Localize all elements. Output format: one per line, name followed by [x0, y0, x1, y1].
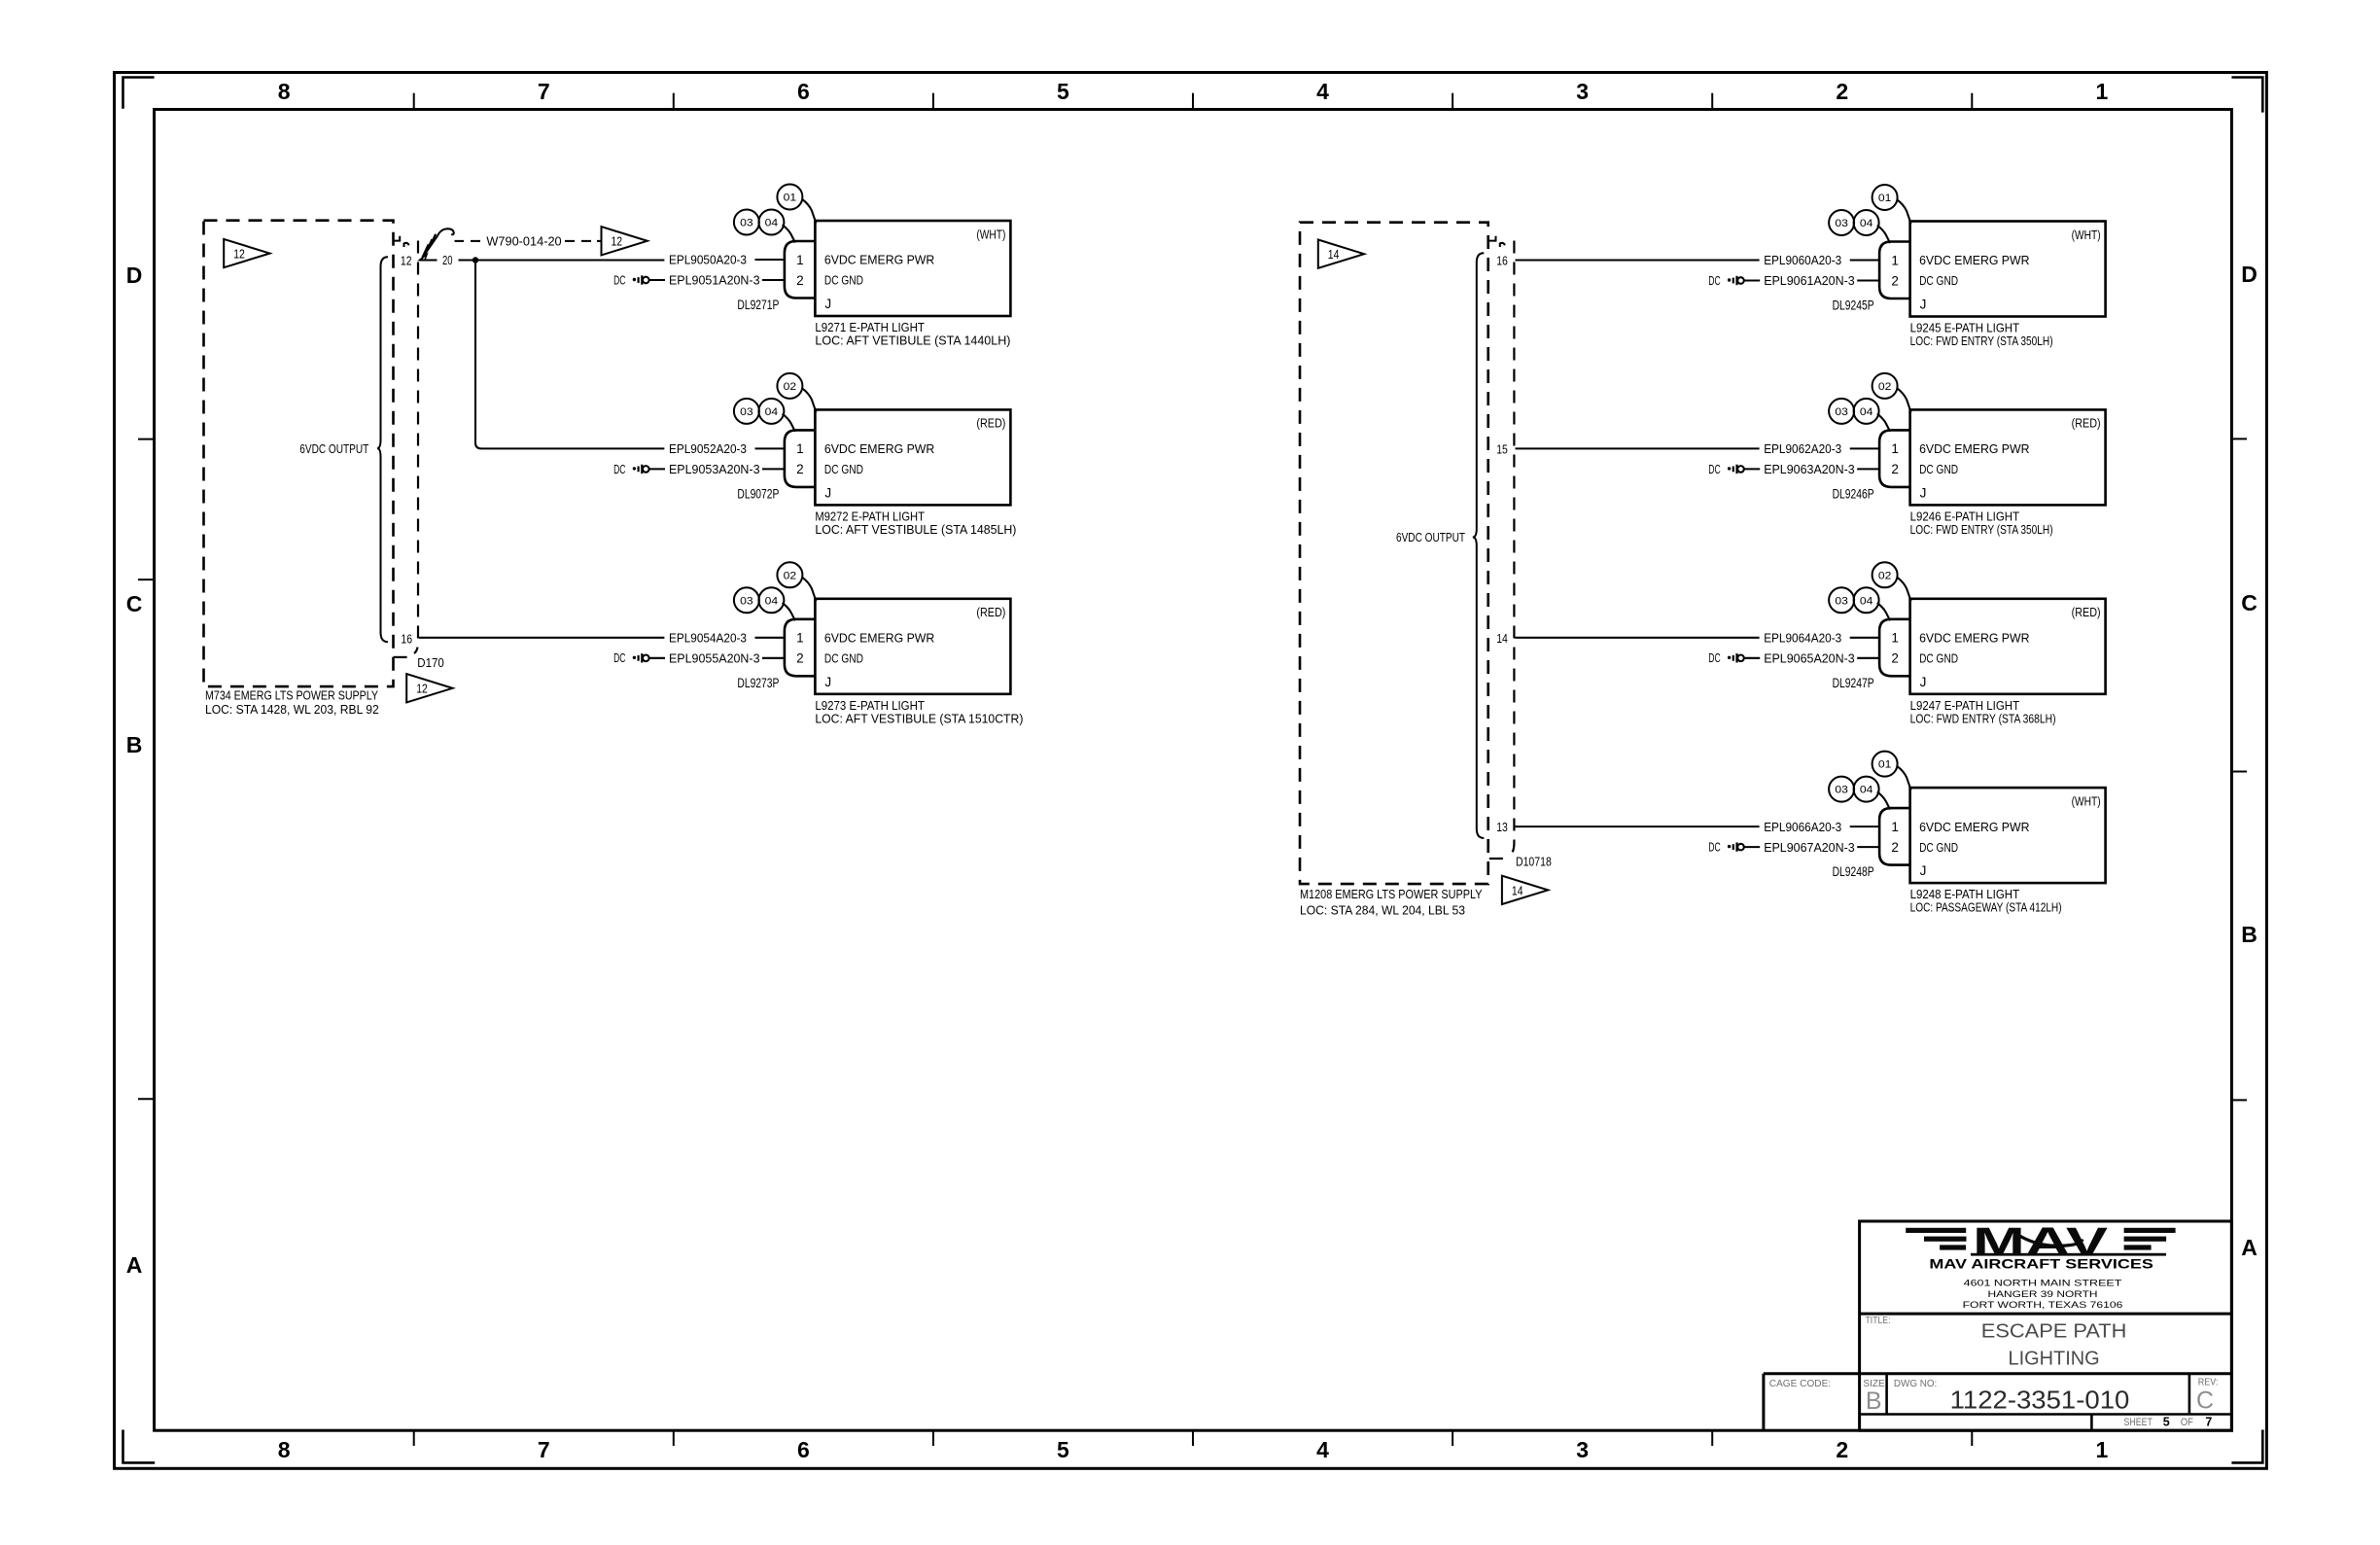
wire EPL9061A20N-3	[1764, 273, 1879, 288]
svg-text:LIGHTING: LIGHTING	[2009, 1348, 2100, 1370]
shield pigtail (W790)	[420, 228, 454, 260]
label L9245 E-PATH LIGHT	[1910, 321, 2053, 349]
svg-text:12: 12	[233, 247, 245, 262]
svg-text:HANGER 39 NORTH: HANGER 39 NORTH	[1988, 1289, 2098, 1300]
circle callout 03 (L9247)	[1829, 587, 1854, 613]
label L9273 E-PATH LIGHT	[815, 698, 1023, 726]
connector DL9072P	[785, 430, 816, 487]
svg-text:J: J	[824, 297, 831, 311]
svg-text:DC GND: DC GND	[824, 651, 863, 666]
svg-text:4: 4	[1316, 79, 1329, 104]
ground DC (EPL9067A20N-3)	[1708, 841, 1760, 855]
svg-text:2: 2	[796, 651, 804, 666]
svg-text:C: C	[126, 591, 143, 616]
svg-text:(RED): (RED)	[976, 605, 1005, 619]
svg-text:(WHT): (WHT)	[2072, 793, 2101, 808]
zone ticks top	[414, 93, 1973, 110]
connector DL9247P	[1879, 619, 1910, 677]
svg-text:12: 12	[612, 234, 623, 249]
connector D10718 (dashed interface line)	[1510, 241, 1514, 856]
svg-text:DC GND: DC GND	[1919, 651, 1958, 666]
wire EPL9052A20-3	[669, 441, 785, 456]
wire EPL9054A20-3	[669, 631, 785, 646]
svg-text:DL9072P: DL9072P	[737, 486, 779, 501]
svg-text:B: B	[126, 732, 143, 757]
circle callout 04 (L9271)	[758, 210, 795, 243]
circle callout 04 (L9246)	[1854, 399, 1891, 432]
wire EPL9055A20N-3	[669, 651, 785, 666]
REV cell	[2196, 1377, 2219, 1415]
svg-text:2: 2	[1891, 651, 1899, 666]
sheet flag 12 (M734)	[224, 239, 269, 267]
SHEET 5 OF 7	[2124, 1415, 2213, 1428]
junction dot (EPL9050 branch)	[472, 257, 478, 263]
connector D170 (dashed interface line)	[414, 241, 418, 654]
svg-text:TITLE:: TITLE:	[1866, 1315, 1891, 1326]
svg-text:LOC: FWD ENTRY (STA 350LH): LOC: FWD ENTRY (STA 350LH)	[1910, 334, 2053, 348]
svg-text:02: 02	[1878, 381, 1892, 393]
svg-text:EPL9055A20N-3: EPL9055A20N-3	[669, 651, 760, 666]
svg-text:5: 5	[1057, 1437, 1069, 1462]
svg-text:DL9271P: DL9271P	[737, 298, 779, 312]
svg-text:EPL9061A20N-3: EPL9061A20N-3	[1764, 273, 1855, 288]
svg-text:DL9248P: DL9248P	[1833, 864, 1874, 879]
label L9246 E-PATH LIGHT	[1910, 509, 2053, 537]
svg-text:14: 14	[1496, 631, 1508, 646]
svg-text:A: A	[126, 1252, 143, 1278]
zone ticks left	[138, 439, 155, 1100]
svg-text:(RED): (RED)	[2072, 416, 2101, 431]
connector DL9273P	[785, 619, 816, 677]
svg-text:6VDC OUTPUT: 6VDC OUTPUT	[1396, 530, 1465, 544]
logo address lines	[1963, 1279, 2123, 1312]
svg-text:02: 02	[784, 381, 797, 393]
circle callout 02 (M9272)	[777, 373, 816, 412]
svg-text:J: J	[824, 485, 831, 500]
wire EPL9053A20N-3	[669, 462, 785, 476]
svg-text:D: D	[126, 263, 143, 288]
label L9271 E-PATH LIGHT	[815, 320, 1010, 348]
svg-text:DL9246P: DL9246P	[1833, 486, 1874, 501]
sheet flag 14 (M1208)	[1318, 240, 1364, 268]
corner bracket bottom-right	[2231, 1430, 2262, 1463]
svg-text:01: 01	[1878, 759, 1892, 771]
wire EPL9050A20-3	[669, 253, 785, 267]
svg-text:6: 6	[797, 79, 810, 104]
DWG NO cell	[1894, 1378, 2129, 1415]
svg-text:01: 01	[1878, 193, 1892, 204]
svg-text:EPL9065A20N-3: EPL9065A20N-3	[1764, 651, 1855, 666]
svg-text:DC: DC	[613, 463, 625, 476]
svg-text:DWG NO:: DWG NO:	[1894, 1378, 1937, 1389]
shield termination mark (D170 bottom)	[394, 656, 407, 658]
svg-text:(RED): (RED)	[976, 416, 1005, 431]
svg-text:DC: DC	[1708, 274, 1720, 288]
svg-text:13: 13	[1496, 820, 1508, 834]
svg-text:LOC: AFT VESTIBULE (STA 1510CT: LOC: AFT VESTIBULE (STA 1510CTR)	[815, 711, 1023, 725]
svg-text:1: 1	[1891, 441, 1899, 456]
svg-text:04: 04	[765, 406, 779, 418]
svg-text:04: 04	[765, 218, 779, 229]
zone ticks bottom	[414, 1430, 1973, 1446]
svg-text:1: 1	[796, 441, 804, 456]
wire segment pin16 to EPL9054	[419, 637, 664, 639]
svg-text:5: 5	[1057, 79, 1069, 104]
zone ticks right	[2231, 439, 2247, 1100]
svg-text:(WHT): (WHT)	[976, 227, 1005, 241]
svg-text:1: 1	[1891, 253, 1899, 267]
shield termination mark (D10718 top)	[1489, 236, 1505, 247]
svg-text:04: 04	[1860, 218, 1873, 229]
label M9272 E-PATH LIGHT	[815, 509, 1016, 537]
light unit L9271 box	[815, 221, 1010, 316]
svg-text:EPL9053A20N-3: EPL9053A20N-3	[669, 462, 760, 476]
svg-text:15: 15	[1496, 441, 1508, 456]
svg-text:D10718: D10718	[1516, 855, 1552, 869]
svg-text:J: J	[1920, 675, 1927, 689]
svg-text:SHEET: SHEET	[2124, 1417, 2153, 1428]
wire EPL9066A20-3	[1764, 820, 1879, 834]
circle callout 03 (M9272)	[734, 399, 759, 424]
svg-text:2: 2	[1836, 79, 1848, 104]
svg-text:03: 03	[1835, 218, 1848, 229]
svg-text:6: 6	[797, 1437, 810, 1462]
label M734 EMERG LTS POWER SUPPLY	[205, 687, 379, 717]
svg-text:7: 7	[538, 79, 550, 104]
svg-text:6VDC EMERG PWR: 6VDC EMERG PWR	[1919, 441, 2029, 456]
svg-text:1: 1	[796, 253, 804, 267]
svg-text:03: 03	[1835, 785, 1848, 796]
ground DC (EPL9051A20N-3)	[613, 273, 665, 287]
svg-text:J: J	[824, 675, 831, 689]
svg-text:DL9247P: DL9247P	[1833, 676, 1874, 690]
svg-text:B: B	[2241, 922, 2257, 947]
svg-text:7: 7	[2205, 1415, 2212, 1428]
wire W790-014-20 (dashed)	[455, 240, 602, 242]
svg-text:EPL9050A20-3: EPL9050A20-3	[669, 253, 747, 267]
circle callout 03 (L9271)	[734, 210, 759, 235]
svg-text:03: 03	[1835, 406, 1848, 418]
ground DC (EPL9063A20N-3)	[1708, 463, 1760, 476]
svg-text:3: 3	[1576, 1437, 1589, 1462]
svg-text:6VDC EMERG PWR: 6VDC EMERG PWR	[1919, 253, 2029, 267]
light unit L9273 box	[815, 599, 1010, 694]
svg-text:DC: DC	[1708, 651, 1720, 665]
svg-text:02: 02	[784, 570, 797, 581]
corner bracket bottom-left	[123, 1430, 156, 1463]
label M1208 EMERG LTS POWER SUPPLY	[1300, 887, 1483, 917]
sheet inner frame	[155, 110, 2232, 1431]
svg-text:8: 8	[278, 1437, 291, 1462]
brace 6VDC OUTPUT (M734)	[377, 257, 388, 642]
wire EPL9063A20N-3	[1764, 462, 1879, 476]
svg-text:14: 14	[1512, 883, 1523, 897]
light unit L9246 box	[1910, 409, 2106, 505]
wire EPL9062A20-3	[1764, 441, 1879, 456]
svg-text:4601 NORTH MAIN STREET: 4601 NORTH MAIN STREET	[1964, 1279, 2122, 1289]
svg-text:DC GND: DC GND	[1919, 273, 1958, 288]
shield termination mark (D170 top)	[393, 236, 408, 247]
wire EPL9060A20-3	[1764, 253, 1879, 267]
svg-text:DC: DC	[613, 651, 625, 665]
circle callout 03 (L9245)	[1829, 210, 1854, 235]
svg-text:01: 01	[784, 193, 797, 204]
svg-text:3: 3	[1576, 79, 1589, 104]
svg-text:J: J	[1920, 863, 1927, 878]
svg-text:C: C	[2196, 1387, 2214, 1414]
svg-text:1: 1	[2095, 1437, 2108, 1462]
circle callout 03 (L9273)	[734, 587, 759, 613]
svg-text:LOC: FWD ENTRY (STA 368LH): LOC: FWD ENTRY (STA 368LH)	[1910, 711, 2056, 725]
svg-text:04: 04	[1860, 785, 1873, 796]
wire segment pin14 to light	[1516, 637, 1760, 639]
svg-text:6VDC EMERG PWR: 6VDC EMERG PWR	[824, 631, 934, 646]
power supply M734 (dashed box)	[204, 221, 394, 686]
svg-text:16: 16	[1496, 254, 1508, 268]
svg-text:W790-014-20: W790-014-20	[486, 234, 561, 249]
svg-text:04: 04	[1860, 595, 1873, 607]
svg-text:1: 1	[1891, 820, 1899, 834]
svg-text:6VDC EMERG PWR: 6VDC EMERG PWR	[1919, 820, 2029, 834]
svg-text:EPL9063A20N-3: EPL9063A20N-3	[1764, 462, 1855, 476]
light unit M9272 box	[815, 409, 1010, 505]
zone letters left	[126, 263, 143, 1278]
wire EPL9065A20N-3	[1764, 651, 1879, 666]
wire segment pin12 to junction (gauge 20)	[419, 253, 664, 267]
svg-text:03: 03	[740, 218, 753, 229]
svg-text:03: 03	[740, 595, 753, 607]
svg-text:DC GND: DC GND	[824, 462, 863, 476]
svg-text:EPL9051A20N-3: EPL9051A20N-3	[669, 273, 760, 288]
sheet flag 12 (W790)	[602, 227, 647, 255]
svg-text:D170: D170	[417, 655, 444, 670]
corner bracket top-left	[123, 78, 155, 109]
connector DL9248P	[1879, 808, 1910, 865]
svg-text:1: 1	[1891, 631, 1899, 646]
svg-text:DL9245P: DL9245P	[1833, 298, 1874, 313]
svg-text:LOC: AFT VETIBULE (STA 1440LH): LOC: AFT VETIBULE (STA 1440LH)	[815, 334, 1010, 348]
svg-text:12: 12	[401, 254, 412, 268]
circle callout 04 (L9245)	[1854, 210, 1891, 243]
circle callout 04 (L9248)	[1854, 777, 1891, 810]
svg-text:6VDC EMERG PWR: 6VDC EMERG PWR	[824, 253, 934, 267]
connector DL9271P	[785, 241, 816, 298]
light unit L9248 box	[1910, 788, 2106, 883]
svg-text:EPL9054A20-3: EPL9054A20-3	[669, 631, 747, 646]
title block outline	[1764, 1221, 2231, 1430]
svg-text:5: 5	[2163, 1415, 2170, 1428]
svg-text:1122-3351-010: 1122-3351-010	[1950, 1386, 2130, 1415]
connector DL9245P	[1879, 242, 1910, 299]
circle callout 04 (M9272)	[758, 399, 795, 432]
svg-text:14: 14	[1328, 247, 1340, 262]
title ESCAPE PATH LIGHTING	[1981, 1320, 2127, 1370]
wire segment pin15 to light	[1516, 447, 1760, 449]
label L9248 E-PATH LIGHT	[1910, 887, 2062, 915]
svg-text:EPL9067A20N-3: EPL9067A20N-3	[1764, 840, 1855, 855]
circle callout 01 (L9248)	[1872, 752, 1911, 790]
svg-text:EPL9060A20-3: EPL9060A20-3	[1764, 253, 1841, 267]
svg-text:LOC: PASSAGEWAY (STA 412LH): LOC: PASSAGEWAY (STA 412LH)	[1910, 900, 2062, 915]
shield termination mark (D10718 bottom)	[1489, 858, 1503, 860]
zone letters right	[2241, 262, 2257, 1260]
svg-text:(RED): (RED)	[2072, 605, 2101, 619]
ground DC (EPL9053A20N-3)	[613, 463, 665, 476]
svg-text:C: C	[2241, 590, 2257, 615]
svg-text:DC GND: DC GND	[824, 273, 863, 288]
wire EPL9064A20-3	[1764, 631, 1879, 646]
circle callout 02 (L9273)	[777, 562, 816, 601]
circle callout 01 (L9245)	[1872, 185, 1911, 224]
zone numbers bottom	[278, 1437, 2109, 1462]
svg-text:M734 EMERG LTS POWER SUPPLY: M734 EMERG LTS POWER SUPPLY	[205, 687, 378, 702]
power supply M1208 (dashed box)	[1300, 223, 1488, 884]
svg-text:LOC: FWD ENTRY (STA 350LH): LOC: FWD ENTRY (STA 350LH)	[1910, 522, 2053, 537]
svg-text:6VDC EMERG PWR: 6VDC EMERG PWR	[824, 441, 934, 456]
wire branch to M9272	[475, 261, 664, 449]
corner bracket top-right	[2231, 78, 2262, 113]
svg-text:EPL9066A20-3: EPL9066A20-3	[1764, 820, 1841, 834]
svg-text:2: 2	[796, 273, 804, 288]
MAV logo	[1906, 1228, 2175, 1256]
svg-text:2: 2	[1891, 462, 1899, 476]
svg-text:02: 02	[1878, 570, 1892, 581]
wire EPL9067A20N-3	[1764, 840, 1879, 855]
svg-text:8: 8	[278, 79, 291, 104]
svg-text:03: 03	[1835, 595, 1848, 607]
circle callout 04 (L9273)	[758, 587, 795, 620]
circle callout 02 (L9247)	[1872, 562, 1911, 601]
svg-text:J: J	[1920, 485, 1927, 500]
svg-text:6VDC OUTPUT: 6VDC OUTPUT	[299, 441, 368, 456]
svg-text:DC GND: DC GND	[1919, 840, 1958, 855]
svg-text:D: D	[2241, 262, 2257, 287]
svg-text:DC: DC	[1708, 463, 1720, 476]
svg-text:ESCAPE PATH: ESCAPE PATH	[1981, 1320, 2127, 1343]
light unit L9247 box	[1910, 599, 2106, 694]
svg-text:16: 16	[401, 632, 412, 647]
svg-text:2: 2	[1891, 840, 1899, 855]
svg-text:DC GND: DC GND	[1919, 462, 1958, 476]
wire segment pin13 to light	[1516, 825, 1760, 827]
svg-text:B: B	[1866, 1387, 1882, 1415]
svg-text:EPL9062A20-3: EPL9062A20-3	[1764, 441, 1841, 456]
svg-text:DC: DC	[613, 273, 625, 287]
svg-text:2: 2	[1891, 273, 1899, 288]
svg-text:20: 20	[442, 253, 453, 267]
zone numbers top	[278, 79, 2109, 104]
sheet flag 12 (D170)	[406, 674, 452, 702]
brace 6VDC OUTPUT (M1208)	[1473, 253, 1485, 838]
svg-text:12: 12	[416, 682, 428, 696]
svg-text:03: 03	[740, 406, 753, 418]
svg-text:J: J	[1920, 298, 1927, 312]
svg-text:2: 2	[796, 462, 804, 476]
wire segment pin16 to light	[1516, 259, 1760, 261]
svg-text:EPL9052A20-3: EPL9052A20-3	[669, 441, 747, 456]
circle callout 03 (L9248)	[1829, 777, 1854, 802]
circle callout 03 (L9246)	[1829, 399, 1854, 424]
svg-text:04: 04	[765, 595, 779, 607]
svg-text:A: A	[2241, 1235, 2257, 1260]
svg-text:OF: OF	[2181, 1417, 2193, 1428]
circle callout 02 (L9246)	[1872, 373, 1911, 412]
svg-text:1: 1	[796, 631, 804, 646]
svg-text:04: 04	[1860, 406, 1873, 418]
ground DC (EPL9065A20N-3)	[1708, 651, 1760, 665]
ground DC (EPL9061A20N-3)	[1708, 274, 1760, 288]
svg-text:CAGE CODE:: CAGE CODE:	[1769, 1378, 1831, 1389]
svg-text:MAV AIRCRAFT SERVICES: MAV AIRCRAFT SERVICES	[1929, 1255, 2152, 1271]
svg-text:(WHT): (WHT)	[2072, 228, 2101, 242]
svg-text:LOC: STA 1428, WL 203, RBL 92: LOC: STA 1428, WL 203, RBL 92	[205, 702, 379, 717]
svg-text:DC: DC	[1708, 841, 1720, 855]
svg-text:7: 7	[538, 1437, 550, 1462]
light unit L9245 box	[1910, 222, 2106, 317]
ground DC (EPL9055A20N-3)	[613, 651, 665, 665]
sheet flag 14 (D10718)	[1502, 876, 1548, 904]
circle callout 01 (L9271)	[777, 185, 816, 224]
connector DL9246P	[1879, 430, 1910, 487]
label L9247 E-PATH LIGHT	[1910, 698, 2056, 726]
svg-text:M1208 EMERG LTS POWER SUPPLY: M1208 EMERG LTS POWER SUPPLY	[1300, 887, 1483, 901]
svg-text:6VDC EMERG PWR: 6VDC EMERG PWR	[1919, 631, 2029, 646]
svg-text:EPL9064A20-3: EPL9064A20-3	[1764, 631, 1841, 646]
svg-text:2: 2	[1836, 1437, 1848, 1462]
SIZE cell	[1863, 1378, 1884, 1415]
svg-text:LOC: AFT VESTIBULE (STA 1485LH: LOC: AFT VESTIBULE (STA 1485LH)	[815, 522, 1016, 537]
svg-text:FORT WORTH, TEXAS 76106: FORT WORTH, TEXAS 76106	[1963, 1300, 2123, 1311]
svg-text:4: 4	[1316, 1437, 1329, 1462]
svg-text:LOC: STA 284, WL 204, LBL 53: LOC: STA 284, WL 204, LBL 53	[1300, 902, 1465, 917]
svg-text:DL9273P: DL9273P	[737, 676, 779, 690]
svg-text:1: 1	[2095, 79, 2108, 104]
wire EPL9051A20N-3	[669, 273, 785, 288]
circle callout 04 (L9247)	[1854, 587, 1891, 620]
